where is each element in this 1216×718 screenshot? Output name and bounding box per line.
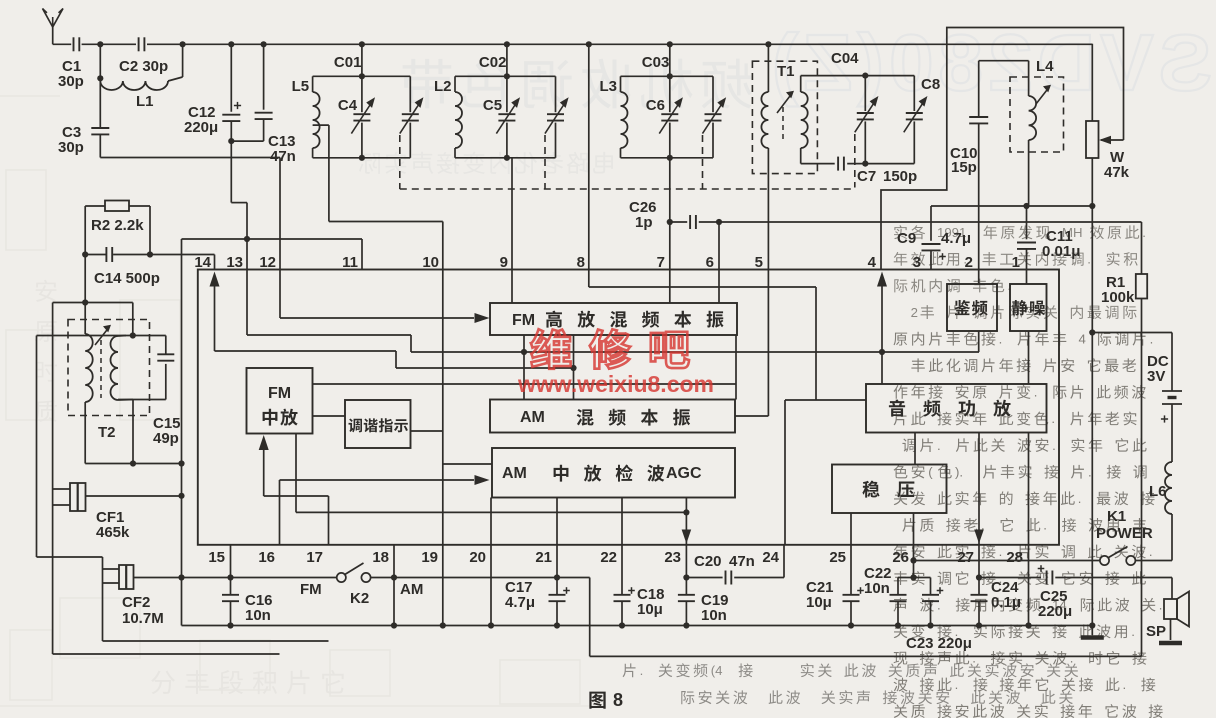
wire pin 4 to volume pot: [881, 28, 1124, 270]
block FM IF (FM 中放): [247, 368, 313, 434]
svg-text:C5: C5: [483, 97, 502, 114]
node C04 top: [862, 73, 868, 79]
wire section rails: [455, 76, 556, 158]
IC U1 body outline: [198, 270, 1059, 545]
wire pin 5 internal to AM mixer: [735, 270, 768, 417]
svg-text:AM: AM: [520, 409, 545, 426]
svg-text:.: .: [1051, 411, 1055, 426]
node C4 bus: [359, 41, 365, 47]
node C17 gnd: [554, 622, 560, 628]
svg-text:100k: 100k: [1101, 289, 1135, 306]
svg-text:22: 22: [600, 549, 617, 566]
wire pin 6 riser: [718, 222, 720, 270]
speaker SP: [1146, 578, 1189, 641]
wire section rails: [621, 76, 714, 158]
wire T2 top link: [53, 302, 133, 304]
node C6 top: [667, 73, 673, 79]
wire W-R1 node to battery: [1092, 332, 1172, 334]
wire C26 node to R1: [719, 221, 1142, 223]
wire pin 21 internal: [556, 498, 558, 545]
capacitor C26: [629, 199, 719, 231]
capacitor C02 (tuning gang, variable): [479, 54, 569, 158]
svg-text:4: 4: [868, 254, 877, 271]
svg-text:2: 2: [911, 305, 918, 320]
node W bottom: [1089, 203, 1095, 209]
capacitor C7: [838, 157, 917, 185]
svg-text:C20: C20: [694, 553, 722, 570]
svg-text:CF2: CF2: [122, 594, 150, 611]
node C6 bus: [667, 41, 673, 47]
svg-text:47n: 47n: [729, 553, 755, 570]
svg-text:L4: L4: [1036, 58, 1054, 75]
capacitor C16: [222, 545, 273, 626]
svg-text:FM: FM: [300, 581, 322, 598]
transformer T1 (dashed box): [752, 61, 817, 173]
svg-text:.: .: [1078, 491, 1082, 506]
wire pin 9 internal: [511, 270, 513, 304]
svg-text:C7: C7: [857, 168, 876, 185]
wire pin 1 internal: [1026, 270, 1028, 285]
svg-text:150p: 150p: [883, 168, 917, 185]
wire C04 gang link (dashed): [854, 134, 856, 188]
wire C04 section bottom rail: [801, 163, 915, 165]
wire pin 7 riser: [669, 158, 671, 270]
wire pin 8 riser: [586, 41, 592, 269]
inductor L5: [292, 76, 320, 158]
svg-text:SP: SP: [1146, 623, 1166, 640]
svg-text:23: 23: [664, 549, 681, 566]
capacitor C12: [184, 44, 241, 157]
svg-text:30p: 30p: [58, 73, 84, 90]
capacitor C01 (tuning gang, variable): [334, 54, 424, 158]
node pin28 gnd: [1025, 622, 1031, 628]
capacitor C8 (variable): [904, 76, 940, 164]
wire section rails: [313, 76, 411, 158]
wire pin 22 internal: [621, 498, 623, 545]
wire FM RF box to AM mixer links: [524, 335, 736, 400]
svg-text:25: 25: [829, 549, 846, 566]
wire C03 gang link (dashed): [702, 135, 704, 189]
svg-text:10μ: 10μ: [806, 594, 832, 611]
svg-text:C23 220μ: C23 220μ: [906, 635, 972, 652]
node C14 left: [82, 251, 88, 257]
svg-text:16: 16: [258, 549, 275, 566]
svg-text:0.1μ: 0.1μ: [991, 594, 1021, 611]
block voltage regulator (稳压): [832, 465, 947, 514]
wire left rail: [181, 239, 183, 626]
svg-text:T1: T1: [777, 63, 795, 80]
svg-text:C6: C6: [646, 97, 665, 114]
transformer T1: [761, 41, 807, 269]
svg-text:.: .: [937, 597, 941, 612]
svg-text:47n: 47n: [270, 148, 296, 165]
wire top bus: [53, 43, 1093, 45]
wire af takeoff to bottom rail: [557, 578, 1142, 657]
node C04 bottom: [862, 161, 868, 167]
wire pin 8 internal to audio amp rail: [589, 270, 816, 401]
svg-text:C03: C03: [642, 54, 670, 71]
svg-text:L3: L3: [600, 78, 618, 95]
svg-text:.: .: [1149, 544, 1153, 559]
svg-text:10n: 10n: [701, 607, 727, 624]
wire pin 7 internal: [669, 270, 671, 304]
node supply: [1089, 329, 1095, 335]
capacitor C15: [157, 336, 174, 361]
wire ground bus: [182, 625, 1093, 627]
wire C5 riser: [506, 44, 508, 76]
node C6 bottom: [667, 155, 673, 161]
svg-text:.: .: [1142, 225, 1146, 240]
svg-text:1: 1: [1012, 254, 1020, 271]
svg-text:24: 24: [762, 549, 779, 566]
wire tuning gang bus (dashed): [400, 188, 853, 190]
wire CF1 to pin16 return: [53, 505, 280, 654]
block FM detector (鉴频): [947, 284, 997, 331]
wire pin 13 internal staircase: [247, 270, 411, 353]
wire pin 27 af line: [979, 577, 1041, 579]
node C26 right / pin 6: [716, 219, 722, 225]
wire pin 20 riser: [490, 545, 492, 626]
svg-text:17: 17: [306, 549, 323, 566]
svg-text:.: .: [972, 651, 976, 666]
svg-text:13: 13: [226, 254, 243, 271]
switch K1 POWER: [914, 508, 1173, 565]
wire AM IF input arrow from pin 16: [280, 475, 490, 545]
inductor L4 (variable): [1029, 58, 1055, 206]
svg-text:3V: 3V: [1147, 368, 1165, 385]
capacitor C04 (tuning gang, variable): [831, 50, 878, 164]
node FM osc tap: [521, 349, 527, 355]
wire supply down to ground: [1091, 206, 1093, 626]
svg-text:L5: L5: [292, 78, 310, 95]
node T2 secondary top: [130, 332, 136, 338]
wire pin 2 internal: [978, 270, 980, 285]
wire pin 14 riser: [214, 255, 216, 270]
block tuning indicator (调谐指示): [345, 400, 411, 448]
node pin18 gnd: [391, 622, 397, 628]
wire FM IF out to pin 23: [296, 434, 686, 513]
svg-text:C02: C02: [479, 54, 507, 71]
node C1-C2: [97, 41, 103, 47]
capacitor C6 (variable): [646, 76, 683, 158]
node C14 right: [147, 251, 153, 257]
wire pin 28 internal: [1028, 433, 1030, 545]
svg-text:6: 6: [706, 254, 714, 271]
svg-text:.: .: [640, 663, 644, 678]
resistor R2: [85, 201, 150, 255]
capacitor C11: [1017, 206, 1080, 270]
inductor L1: [100, 44, 182, 110]
ground main: [1081, 626, 1104, 638]
wire pin 4 internal: [877, 272, 887, 385]
capacitor C1: [58, 37, 84, 90]
svg-text:K1: K1: [1107, 508, 1126, 525]
svg-text:AGC: AGC: [666, 465, 702, 482]
svg-text:L1: L1: [136, 93, 154, 110]
wire pin 26 node rail: [898, 545, 931, 578]
svg-text:C2 30p: C2 30p: [119, 58, 168, 75]
capacitor C23: [906, 578, 972, 653]
svg-text:(: (: [928, 464, 933, 479]
ground speaker: [1159, 641, 1182, 646]
block FM RF mixer-oscillator (FM 高放 混频 本振): [490, 303, 737, 335]
svg-text:11: 11: [342, 254, 358, 271]
svg-text:.: .: [1052, 438, 1056, 453]
svg-text:0.01μ: 0.01μ: [1042, 243, 1080, 260]
svg-text:4.7μ: 4.7μ: [505, 594, 535, 611]
svg-text:K2: K2: [350, 590, 369, 607]
node C5 bottom: [504, 155, 510, 161]
node CF1 right: [178, 493, 184, 499]
transformer T2 (dashed box): [68, 320, 150, 416]
node C18 gnd: [619, 622, 625, 628]
potentiometer W: [1086, 44, 1130, 206]
capacitor C14: [85, 247, 214, 287]
wire pin 20 internal: [490, 498, 492, 545]
wire pin 18 riser: [393, 545, 395, 626]
wire C10 to L4 top: [979, 60, 1029, 62]
svg-text:7: 7: [657, 254, 665, 271]
capacitor C20: [686, 545, 784, 585]
wire audio amp input rail / pin 24: [785, 400, 866, 545]
wire pin 10/19 column: [442, 270, 444, 626]
block AM IF-detector-AGC (AM 中放检波 AGC): [492, 448, 735, 498]
node C5 bus: [504, 41, 510, 47]
node C22 gnd: [895, 622, 901, 628]
svg-text:.: .: [1150, 331, 1154, 346]
svg-text:4.7μ: 4.7μ: [941, 230, 971, 247]
wire pin 23 internal: [682, 498, 692, 545]
wire FM/AM select rail: [182, 577, 558, 579]
svg-text:.: .: [999, 544, 1003, 559]
node C4 bottom: [359, 155, 365, 161]
node pin26 cap: [910, 574, 916, 580]
svg-text:27: 27: [957, 549, 974, 566]
svg-text:5: 5: [755, 254, 763, 271]
node C4 top: [359, 73, 365, 79]
capacitor C3: [58, 78, 109, 157]
svg-text:.: .: [937, 438, 941, 453]
svg-text:49p: 49p: [153, 430, 179, 447]
node C11 bus: [1023, 203, 1029, 209]
svg-text:.: .: [1159, 597, 1163, 612]
svg-text:18: 18: [372, 549, 389, 566]
svg-text:10: 10: [422, 254, 439, 271]
node pin26 switch: [910, 557, 916, 563]
capacitor C03 (tuning gang, variable): [642, 54, 726, 158]
svg-text:14: 14: [194, 254, 211, 271]
node C24 top: [976, 574, 982, 580]
svg-text:.: .: [1088, 464, 1092, 479]
svg-text:15p: 15p: [951, 159, 977, 176]
node left rail T2: [178, 460, 184, 466]
inductor L2: [434, 76, 462, 158]
svg-text:.: .: [1034, 385, 1038, 400]
svg-text:.: .: [1070, 651, 1074, 666]
wire C04 section top rail: [801, 75, 915, 77]
wire C15 bottom: [118, 364, 166, 464]
wire regulator links: [851, 433, 915, 545]
pin labels bottom row: [208, 549, 1023, 566]
block squelch (静噪): [1010, 284, 1047, 331]
svg-text:FM: FM: [512, 312, 535, 329]
node T2 bottom: [130, 460, 136, 466]
wire T2 secondary top net: [37, 303, 166, 558]
svg-text:30p: 30p: [58, 139, 84, 156]
svg-text:3: 3: [913, 254, 921, 271]
svg-text:C14 500p: C14 500p: [94, 270, 160, 287]
svg-text:AM: AM: [400, 581, 423, 598]
node pin19 gnd: [440, 622, 446, 628]
wire pin 28 riser: [1028, 545, 1030, 626]
caption 图 8: [589, 690, 623, 710]
block audio power amp (音频功放): [866, 384, 1047, 433]
svg-text:21: 21: [535, 549, 552, 566]
node pin 4 rail: [879, 349, 885, 355]
wire rail C3 to pin12: [100, 157, 280, 159]
capacitor C22: [864, 565, 907, 626]
svg-text:L2: L2: [434, 78, 452, 95]
ceramic filter CF1 465k: [53, 303, 182, 542]
ceramic filter CF2 10.7M: [37, 557, 182, 641]
wire pin 12 riser: [279, 158, 281, 270]
block AM mixer-oscillator (AM 混频 本振): [490, 400, 735, 433]
wire C6 riser: [669, 44, 671, 76]
switch K2 band select: [300, 563, 423, 607]
node AM osc tap: [570, 365, 576, 371]
svg-text:.: .: [1131, 624, 1135, 639]
svg-text:12: 12: [259, 254, 276, 271]
svg-text:10.7M: 10.7M: [122, 610, 164, 627]
svg-text:2: 2: [965, 254, 973, 271]
wire pin 14 internal to AM osc: [210, 272, 574, 369]
svg-text:20: 20: [469, 549, 486, 566]
svg-text:1p: 1p: [635, 214, 653, 231]
node C23 gnd: [927, 622, 933, 628]
wire pin13/pin11 link: [182, 158, 363, 270]
node T2 primary top: [82, 299, 88, 305]
magazine article text column: [893, 225, 1162, 718]
svg-text:C04: C04: [831, 50, 859, 67]
svg-text:.: .: [955, 677, 959, 692]
capacitor C19: [678, 545, 729, 626]
wire C02 gang link (dashed): [544, 135, 546, 189]
svg-text:10μ: 10μ: [637, 601, 663, 618]
capacitor C17: [505, 545, 570, 626]
capacitor C18: [614, 545, 665, 626]
svg-text:FM: FM: [268, 385, 291, 402]
node C16 top: [227, 574, 233, 580]
article text bottom strip: [623, 663, 1079, 704]
node C17 top: [554, 574, 560, 580]
svg-text:T2: T2: [98, 424, 116, 441]
wire pin 6 internal: [718, 270, 720, 304]
inductor L6: [1149, 462, 1172, 561]
node pin 23 af: [683, 509, 689, 515]
node L1 left: [97, 75, 103, 81]
svg-text:R2 2.2k: R2 2.2k: [91, 217, 144, 234]
node C24 gnd: [976, 622, 982, 628]
node C26 left: [667, 219, 673, 225]
wire pin 12 internal to FM RF input: [280, 270, 490, 324]
node pin18 sel: [391, 574, 397, 580]
svg-text:220μ: 220μ: [184, 119, 218, 136]
node supply gnd: [1089, 622, 1095, 628]
svg-text:C9: C9: [897, 230, 916, 247]
wire pin 27 internal: [974, 433, 984, 545]
wire FM RF out to detector rail: [411, 351, 979, 353]
wire L5 tap to pin 10: [313, 125, 443, 269]
node C2 right: [180, 41, 186, 47]
capacitor C10: [950, 61, 988, 270]
capacitor C2: [119, 37, 168, 75]
node CF2 right: [178, 574, 184, 580]
node C13 top: [261, 41, 267, 47]
battery DC 3V: [1147, 333, 1182, 463]
node C16 gnd: [227, 622, 233, 628]
svg-text:10n: 10n: [245, 607, 271, 624]
svg-text:(4: (4: [711, 663, 723, 678]
pin labels top row: [194, 254, 1020, 271]
svg-text:10n: 10n: [864, 580, 890, 597]
node C19 top: [683, 574, 689, 580]
capacitor C9: [897, 206, 971, 270]
capacitor C4 (variable): [338, 76, 375, 158]
svg-text:220μ: 220μ: [1038, 603, 1072, 620]
svg-text:L6: L6: [1149, 483, 1167, 500]
wire pin 9 riser: [511, 158, 513, 270]
svg-text:POWER: POWER: [1096, 525, 1153, 542]
capacitor C25: [1038, 565, 1172, 620]
svg-text:.: .: [1043, 518, 1047, 533]
svg-text:C01: C01: [334, 54, 362, 71]
svg-text:AM: AM: [502, 465, 527, 482]
svg-text:4: 4: [1079, 331, 1086, 346]
svg-text:47k: 47k: [1104, 164, 1130, 181]
svg-text:26: 26: [892, 549, 909, 566]
wire C4 riser: [361, 44, 363, 76]
node C12-C13 join: [228, 138, 234, 144]
inductor L4 (dashed box): [1010, 77, 1064, 152]
svg-text:C8: C8: [921, 76, 940, 93]
node pin20 gnd: [488, 622, 494, 628]
wire CF2 to pin17 return: [103, 640, 329, 642]
node C5 top: [504, 73, 510, 79]
svg-text:.: .: [999, 331, 1003, 346]
wire FM det to signal rail: [978, 331, 980, 352]
svg-text:C4: C4: [338, 97, 358, 114]
svg-text:).: ).: [955, 464, 963, 479]
wire R2 to T2 node: [84, 255, 86, 303]
node C19 gnd: [683, 622, 689, 628]
transformer T2: [85, 303, 133, 464]
wire C01 gang link (dashed): [399, 135, 401, 189]
capacitor C21: [806, 545, 864, 626]
capacitor C24: [971, 545, 1022, 626]
wire C9-C11-W bus: [931, 205, 1092, 207]
wire FM IF box leads: [313, 384, 737, 464]
svg-text:www.weixiu8.com: www.weixiu8.com: [517, 371, 714, 397]
svg-text:28: 28: [1006, 549, 1023, 566]
svg-text:15: 15: [208, 549, 225, 566]
node C21 gnd: [848, 622, 854, 628]
resistor R1: [1101, 222, 1147, 656]
node pin13: [244, 236, 250, 242]
watermark weixiu8: [517, 329, 714, 397]
wire FM IF input from pin 17: [259, 435, 329, 545]
wire squelch to audio amp: [1028, 331, 1030, 384]
svg-text:.: .: [1087, 252, 1091, 267]
